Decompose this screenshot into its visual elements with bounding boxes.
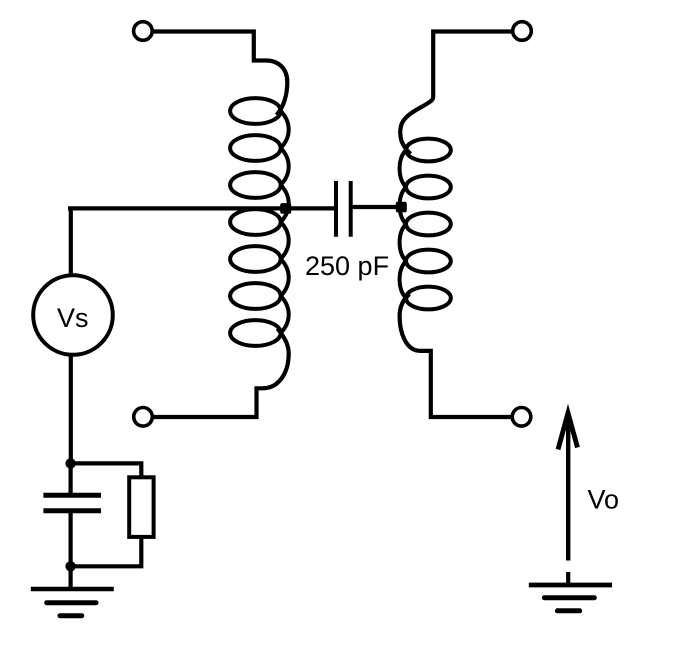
svg-text:Vo: Vo [588, 485, 620, 515]
svg-text:250 pF: 250 pF [305, 251, 389, 281]
svg-text:Vs: Vs [57, 303, 89, 333]
